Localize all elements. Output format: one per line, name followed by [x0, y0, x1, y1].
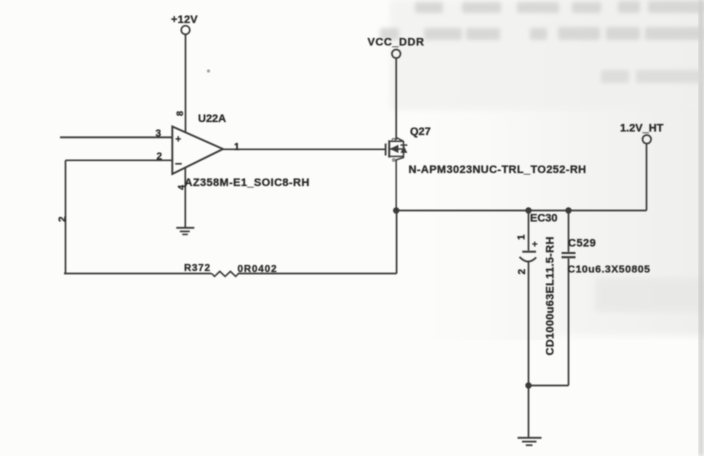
svg-text:C10u6.3X50805: C10u6.3X50805	[568, 264, 651, 276]
svg-text:R372: R372	[184, 263, 211, 274]
svg-text:+: +	[532, 239, 538, 250]
svg-text:2: 2	[517, 269, 528, 275]
svg-text:AZ358M-E1_SOIC8-RH: AZ358M-E1_SOIC8-RH	[185, 177, 310, 189]
svg-text:0R0402: 0R0402	[238, 264, 278, 275]
svg-text:C529: C529	[568, 238, 596, 250]
svg-text:N-APM3023NUC-TRL_TO252-RH: N-APM3023NUC-TRL_TO252-RH	[409, 164, 587, 176]
svg-text:2: 2	[157, 152, 163, 163]
svg-text:Q27: Q27	[410, 126, 431, 138]
svg-text:EC30: EC30	[530, 213, 558, 225]
svg-text:4: 4	[177, 185, 187, 190]
svg-text:2: 2	[58, 216, 69, 222]
svg-text:1.2V_HT: 1.2V_HT	[620, 123, 664, 135]
svg-text:+12V: +12V	[171, 14, 198, 26]
svg-text:1: 1	[517, 234, 528, 240]
svg-text:VCC_DDR: VCC_DDR	[368, 37, 425, 49]
svg-text:1: 1	[234, 142, 240, 153]
svg-text:3: 3	[156, 129, 162, 140]
svg-text:U22A: U22A	[198, 113, 226, 125]
svg-text:8: 8	[175, 111, 185, 116]
svg-text:+: +	[175, 134, 181, 145]
svg-text:CD1000u63EL11.5-RH: CD1000u63EL11.5-RH	[545, 236, 557, 355]
